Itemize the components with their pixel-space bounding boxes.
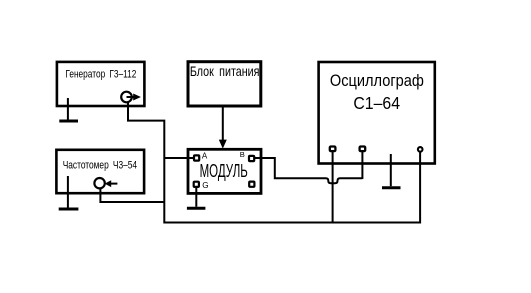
svg-text:G: G: [202, 181, 208, 190]
svg-text:Частотомер Ч3–54: Частотомер Ч3–54: [63, 160, 137, 172]
svg-text:Блок питания: Блок питания: [190, 64, 260, 79]
svg-text:A: A: [202, 152, 208, 161]
svg-text:МОДУЛЬ: МОДУЛЬ: [200, 160, 248, 181]
svg-text:Осциллограф: Осциллограф: [330, 71, 424, 90]
svg-text:С1–64: С1–64: [353, 93, 400, 113]
svg-text:Генератор Г3–112: Генератор Г3–112: [65, 69, 136, 81]
svg-text:B: B: [240, 150, 245, 159]
